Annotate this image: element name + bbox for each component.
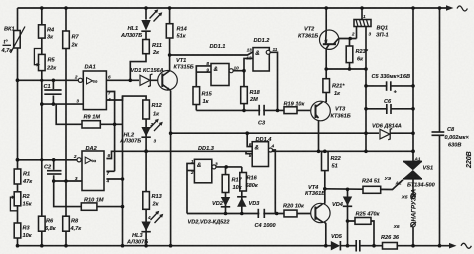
resistor R3 bbox=[14, 223, 33, 239]
wire R9 right to DA1 pins column bbox=[100, 123, 122, 125]
resistor R14 bbox=[166, 24, 187, 40]
wire DA1 pin2 net bbox=[18, 79, 79, 81]
resistor R2 bbox=[10, 192, 32, 211]
transistor VT4 bbox=[305, 185, 330, 223]
wire VT3 emitter to rail bbox=[317, 117, 319, 152]
LED HL1 bbox=[120, 9, 162, 39]
diode VD3 bbox=[237, 197, 260, 207]
resistor R25 bbox=[355, 211, 381, 224]
resistor R16 bbox=[240, 173, 259, 192]
wire R24 gate net bbox=[325, 180, 403, 190]
wire C5 branch bbox=[366, 85, 413, 87]
wire R17 VD2 column bbox=[225, 167, 227, 214]
capacitor C5 bbox=[372, 74, 411, 96]
wire DA2 pin2 net bbox=[18, 159, 79, 161]
wire DA2 pin7 pin4 stubs and column bbox=[106, 171, 122, 179]
wire bottom rail bbox=[18, 243, 472, 249]
wire DD1.2 pin12 to R18 bbox=[244, 58, 253, 110]
wire mains right column VS1 bbox=[412, 8, 414, 246]
resistor R23 bbox=[346, 46, 369, 63]
capacitor C1 bbox=[44, 84, 62, 96]
wire R21 to VT3 collector bbox=[322, 93, 326, 107]
wire DD1.2 pin13 net bbox=[170, 52, 253, 55]
resistor R15 bbox=[193, 87, 213, 105]
wire DA1 pin3 net bbox=[42, 103, 84, 105]
capacitor C4 bbox=[255, 209, 277, 229]
wire R16 VD3 column bbox=[241, 167, 243, 214]
wire VD4 column bbox=[347, 189, 349, 246]
wire oscillator net y110 bbox=[196, 109, 310, 111]
wire C8 column bbox=[439, 8, 441, 246]
gate DD1.2 bbox=[246, 38, 277, 110]
wire common net y133 bbox=[171, 132, 413, 134]
wire C2 stem bbox=[53, 160, 55, 181]
resistor R24 bbox=[362, 176, 392, 194]
wire C1 stem bbox=[52, 80, 54, 104]
resistor R6 bbox=[39, 216, 57, 232]
resistor R17 bbox=[222, 175, 243, 193]
wire R22 column to VT4 collector bbox=[322, 151, 325, 206]
triac VS1 bbox=[395, 157, 436, 189]
thermistor BK1 bbox=[1, 27, 26, 55]
resistor R20 bbox=[283, 203, 305, 217]
capacitor C3 bbox=[258, 105, 266, 127]
wire y69 node bbox=[326, 68, 366, 70]
resistor R10 bbox=[81, 197, 104, 210]
resistor R18 bbox=[241, 87, 261, 104]
wire R25 branch bbox=[348, 221, 375, 246]
wire VT4 emitter to bottom rail bbox=[322, 220, 326, 246]
wire DD1.4 lower input jog bbox=[246, 151, 252, 153]
resistor R9 bbox=[82, 115, 100, 129]
terminal X6 bbox=[393, 222, 416, 229]
resistor R22 bbox=[322, 152, 342, 171]
gate DD1.4 bbox=[249, 137, 275, 167]
wire DD1.3 output net bbox=[216, 166, 242, 168]
diode VD4 bbox=[332, 197, 352, 209]
capacitor C8 bbox=[432, 127, 470, 148]
label VD2 VD3 type bbox=[188, 220, 231, 226]
resistor R1 bbox=[14, 169, 33, 185]
terminal X5 bbox=[401, 194, 416, 200]
wire HL2 R13 chain column bbox=[145, 100, 147, 246]
buzzer BQ1 bbox=[351, 14, 389, 39]
wire DD1.4 output down bbox=[273, 150, 276, 214]
wire BQ1 pins bbox=[357, 8, 367, 151]
svg-text:220В: 220В bbox=[466, 151, 473, 169]
resistor R13 bbox=[143, 192, 163, 210]
wire DD1.3 inputs column bbox=[187, 163, 194, 213]
wire HL1 R11 branch bbox=[130, 8, 146, 80]
wire R4-R5-R6 column bbox=[41, 8, 43, 246]
wire R10 left loop bbox=[54, 181, 82, 207]
op-amp DA1 bbox=[74, 64, 111, 109]
transistor VT3 bbox=[311, 101, 351, 121]
wire DD1.1 output bbox=[233, 70, 244, 72]
capacitor C2 bbox=[44, 165, 62, 176]
diode VD5 bbox=[331, 234, 343, 250]
wire left sensor column bbox=[17, 8, 19, 246]
capacitor C7 bbox=[356, 240, 360, 252]
wire R9 left loop bbox=[56, 104, 82, 124]
diode VD2 bbox=[212, 197, 230, 207]
resistor R19 bbox=[284, 101, 306, 113]
wire R10 right bbox=[97, 206, 123, 208]
wire top rail bbox=[18, 5, 468, 11]
resistor R7 bbox=[63, 31, 80, 49]
wire DD1.4 upper input from y133 bbox=[247, 133, 252, 146]
gate DD1.1 bbox=[206, 44, 239, 86]
resistor R21 bbox=[323, 79, 345, 97]
wire 0V column from pin4 net bbox=[122, 96, 124, 246]
resistor R4 bbox=[39, 25, 56, 41]
resistor R5 bbox=[34, 49, 57, 72]
zener VD1 bbox=[131, 68, 164, 87]
resistor R12 bbox=[143, 100, 163, 119]
label load bbox=[411, 189, 418, 221]
transistor VT2 bbox=[298, 27, 339, 50]
label 220V bbox=[466, 151, 473, 169]
wire VT1 emitter column bbox=[170, 91, 172, 246]
op-amp DA2 bbox=[73, 146, 111, 191]
wire R14 column bbox=[165, 8, 170, 76]
wire R7-R8 column bbox=[65, 8, 67, 246]
LED HL3 bbox=[126, 211, 163, 246]
wire DA1 pin7 stub and column bbox=[106, 92, 114, 172]
wire DA2 pin3 net bbox=[54, 180, 82, 182]
wire VT2 base net bbox=[339, 38, 357, 40]
wire DA1 pin4 stub to R12 bbox=[106, 96, 146, 100]
wire VT2 collector column bbox=[325, 49, 327, 79]
transistor VT1 bbox=[158, 58, 194, 91]
wire C6 branch bbox=[366, 108, 413, 110]
resistor R26 bbox=[381, 235, 400, 249]
wire C4 R20 net bbox=[187, 213, 311, 215]
wire DA1 output net bbox=[106, 79, 158, 81]
wire R23 column bbox=[349, 39, 351, 70]
wire DD1.1 inputs and R15 bbox=[196, 66, 211, 111]
LED HL2 bbox=[119, 119, 163, 145]
gate DD1.3 bbox=[190, 146, 218, 183]
resistor R11 bbox=[143, 40, 162, 57]
capacitor C6 bbox=[384, 99, 392, 114]
resistor R8 bbox=[63, 216, 83, 232]
wire DA2 output to long rail bbox=[106, 151, 413, 158]
zener VD6 bbox=[372, 124, 402, 140]
wire VT2 emitter from rail bbox=[325, 8, 327, 31]
